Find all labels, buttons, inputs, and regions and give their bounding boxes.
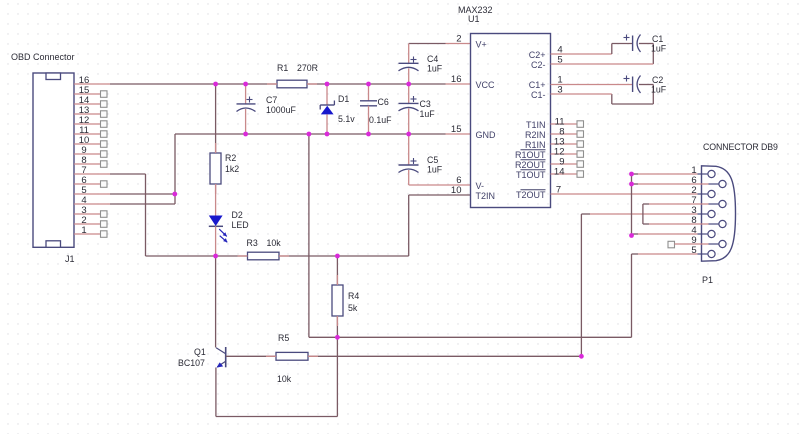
- svg-text:2: 2: [456, 34, 461, 45]
- svg-text:C3: C3: [420, 99, 431, 109]
- svg-text:P1: P1: [702, 275, 713, 285]
- svg-text:V-: V-: [476, 181, 485, 191]
- svg-text:OBD Connector: OBD Connector: [11, 52, 75, 62]
- svg-text:C6: C6: [378, 97, 389, 107]
- svg-text:VCC: VCC: [476, 80, 496, 90]
- svg-text:16: 16: [451, 74, 462, 85]
- svg-text:D1: D1: [338, 94, 349, 104]
- svg-text:C1+: C1+: [529, 80, 546, 90]
- svg-text:1uF: 1uF: [420, 109, 436, 119]
- svg-text:LED: LED: [232, 220, 249, 230]
- svg-text:C4: C4: [427, 54, 438, 64]
- svg-text:U1: U1: [468, 14, 480, 24]
- svg-text:10k: 10k: [277, 374, 292, 384]
- svg-text:R1OUT: R1OUT: [515, 150, 546, 160]
- svg-text:R4: R4: [348, 291, 359, 301]
- svg-text:T1IN: T1IN: [526, 120, 546, 130]
- svg-text:CONNECTOR DB9: CONNECTOR DB9: [703, 142, 778, 152]
- svg-text:Q1: Q1: [194, 347, 206, 357]
- svg-text:C2-: C2-: [531, 60, 546, 70]
- svg-text:R2OUT: R2OUT: [515, 160, 546, 170]
- svg-text:R2: R2: [225, 153, 236, 163]
- svg-text:1uF: 1uF: [651, 85, 667, 95]
- svg-text:C1: C1: [652, 34, 663, 44]
- svg-text:D2: D2: [232, 210, 243, 220]
- svg-text:C7: C7: [266, 95, 277, 105]
- svg-text:0.1uF: 0.1uF: [369, 115, 392, 125]
- svg-text:1000uF: 1000uF: [266, 105, 296, 115]
- svg-text:5.1v: 5.1v: [338, 114, 355, 124]
- svg-text:10: 10: [451, 185, 462, 196]
- svg-text:BC107: BC107: [178, 358, 205, 368]
- svg-text:R5: R5: [278, 333, 289, 343]
- svg-text:C5: C5: [427, 155, 438, 165]
- svg-text:R3: R3: [247, 238, 258, 248]
- svg-text:14: 14: [554, 167, 565, 178]
- svg-text:10k: 10k: [267, 238, 282, 248]
- svg-text:5k: 5k: [348, 303, 358, 313]
- svg-text:1uF: 1uF: [427, 165, 443, 175]
- svg-text:T1OUT: T1OUT: [516, 170, 546, 180]
- svg-text:5: 5: [557, 55, 562, 66]
- svg-text:R1: R1: [277, 63, 288, 73]
- svg-text:R1IN: R1IN: [525, 140, 546, 150]
- svg-text:C1-: C1-: [531, 90, 546, 100]
- svg-text:1k2: 1k2: [225, 164, 239, 174]
- svg-text:V+: V+: [476, 40, 487, 50]
- svg-text:C2+: C2+: [529, 50, 546, 60]
- svg-text:C2: C2: [652, 75, 663, 85]
- svg-text:J1: J1: [65, 254, 75, 264]
- svg-text:GND: GND: [476, 130, 497, 140]
- svg-text:1uF: 1uF: [427, 64, 443, 74]
- svg-text:7: 7: [556, 185, 561, 196]
- svg-text:15: 15: [451, 124, 462, 135]
- svg-text:3: 3: [557, 85, 562, 96]
- svg-text:1uF: 1uF: [651, 44, 667, 54]
- svg-text:T2IN: T2IN: [476, 191, 496, 201]
- svg-text:R2IN: R2IN: [525, 130, 546, 140]
- svg-text:T2OUT: T2OUT: [516, 190, 546, 200]
- svg-text:270R: 270R: [297, 63, 318, 73]
